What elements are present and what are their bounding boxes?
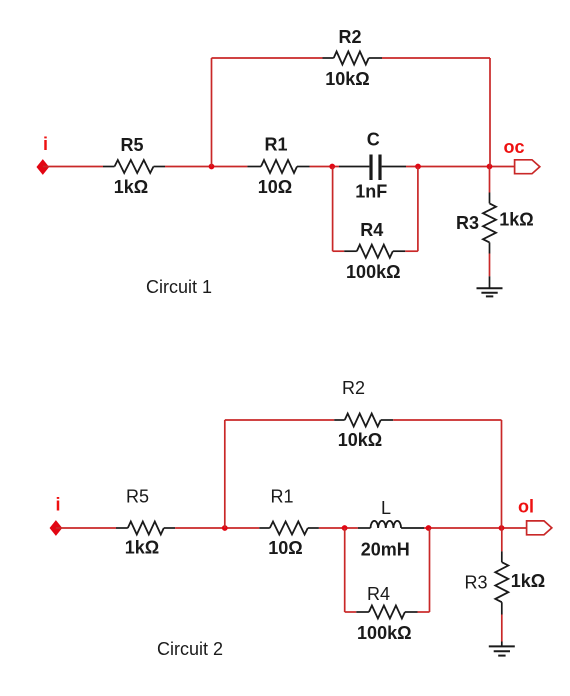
svg-text:100kΩ: 100kΩ [357,623,411,643]
junction node B (Circuit 1) [329,164,335,170]
label R3 [456,213,479,233]
resistor R4 (Circuit 1) [344,245,405,258]
wire L to output node (Circuit 2) [424,527,527,529]
svg-text:1nF: 1nF [355,182,387,202]
svg-text:R4: R4 [367,584,390,604]
value 1k&#937; (R5 Circuit 2) [125,537,159,557]
svg-text:R2: R2 [342,378,365,398]
svg-text:C: C [367,130,380,150]
wire node A up (Circuit 1) [211,58,213,167]
label R3 (Circuit 2) [464,573,487,593]
node i (Circuit 2 input) [55,495,60,515]
value 1nF (C) [355,182,387,202]
wire node A up (Circuit 2) [224,420,226,528]
value 10k&#937; (R2) [325,69,369,89]
label R2 [338,27,361,47]
output port ol [527,521,552,535]
svg-text:1kΩ: 1kΩ [125,537,159,557]
wire R4 to bottom right corner (Circuit 2) [418,611,430,613]
label R5 [120,135,143,155]
wire node B down (Circuit 1) [332,167,334,252]
junction node D (Circuit 2) [426,525,432,531]
node i (Circuit 1 input) [43,134,48,154]
svg-text:10kΩ: 10kΩ [325,69,369,89]
label R4 (Circuit 2) [367,584,390,604]
wire R5 to R1 [165,166,247,168]
resistor R3 (Circuit 1) [483,203,496,253]
wire R3 to ground [489,254,491,289]
svg-text:1kΩ: 1kΩ [511,571,545,591]
junction output node (Circuit 1) [487,164,493,170]
svg-text:R2: R2 [338,27,361,47]
junction node A (Circuit 1) [209,164,215,170]
wire R2 to top right corner [382,57,490,59]
svg-text:R3: R3 [464,573,487,593]
svg-text:L: L [381,498,391,518]
label R5 (Circuit 2) [126,486,149,506]
wire R4 to bottom right corner [405,250,418,252]
value 20mH (L) [361,540,410,560]
wire top right down to output node [489,58,491,167]
wire top left to R2 [212,57,323,59]
wire input to R5 (Circuit 2) [56,527,116,529]
value 1k&#937; (R3 Circuit 2) [511,571,545,591]
svg-text:oc: oc [503,137,524,157]
svg-text:1kΩ: 1kΩ [114,177,148,197]
svg-text:ol: ol [518,497,534,517]
wire R5 to R1 (Circuit 2) [175,527,259,529]
caption Circuit 1 [146,277,212,297]
resistor R5 (Circuit 2) [116,522,175,535]
svg-text:10Ω: 10Ω [258,177,292,197]
wire input to R5 [43,166,103,168]
wire top left to R2 (Circuit 2) [225,419,334,421]
wire top right down to output node (Circuit 2) [501,420,503,528]
svg-text:10kΩ: 10kΩ [338,430,382,450]
svg-text:20mH: 20mH [361,540,410,560]
node oc label [503,137,524,157]
svg-text:R5: R5 [120,135,143,155]
wire node D down (Circuit 1) [417,167,419,252]
ground (Circuit 1) [477,288,503,296]
label C [367,130,380,150]
svg-text:100kΩ: 100kΩ [346,262,400,282]
resistor R4 (Circuit 2) [356,606,417,619]
svg-text:i: i [55,495,60,515]
label R4 [360,220,383,240]
junction node D (Circuit 1) [415,164,421,170]
caption Circuit 2 [157,639,223,659]
label R2 (Circuit 2) [342,378,365,398]
svg-text:R4: R4 [360,220,383,240]
wire node B down (Circuit 2) [344,528,346,612]
value 10&#937; (R1 Circuit 2) [268,538,302,558]
value 100k&#937; (R4) [346,262,400,282]
wire bottom left to R4 (Circuit 2) [345,611,357,613]
label L [381,498,391,518]
input terminal diamond (Circuit 2) [50,521,61,535]
value 1k&#937; (R3) [499,210,533,230]
input terminal diamond (Circuit 1) [37,160,48,174]
wire R2 to top right corner (Circuit 2) [393,419,501,421]
wire R1 to C [310,166,370,168]
wire output node down to R3 [489,167,491,204]
svg-text:R1: R1 [270,486,293,506]
junction node A (Circuit 2) [222,525,228,531]
label R1 (Circuit 2) [270,486,293,506]
junction node B (Circuit 2) [342,525,348,531]
wire R1 to L [319,527,371,529]
resistor R5 (Circuit 1) [103,160,165,173]
resistor R2 (Circuit 1) [323,52,383,65]
svg-text:R1: R1 [264,135,287,155]
value 1k&#937; (R5) [114,177,148,197]
wire output node down to R3 (Circuit 2) [501,528,503,562]
output port oc [515,160,540,174]
svg-text:R3: R3 [456,213,479,233]
svg-text:1kΩ: 1kΩ [499,210,533,230]
value 10&#937; (R1) [258,177,292,197]
wire C to output node [382,166,515,168]
resistor R3 (Circuit 2) [495,562,508,614]
svg-text:i: i [43,134,48,154]
svg-text:Circuit 1: Circuit 1 [146,277,212,297]
value 10k&#937; (R2 Circuit 2) [338,430,382,450]
resistor R2 (Circuit 2) [334,414,393,427]
junction output node (Circuit 2) [499,525,505,531]
wire R3 to ground (Circuit 2) [501,615,503,647]
capacitor C [371,155,380,181]
svg-text:R5: R5 [126,486,149,506]
inductor L [371,521,425,528]
node ol label [518,497,534,517]
label R1 [264,135,287,155]
svg-text:10Ω: 10Ω [268,538,302,558]
value 100k&#937; (R4 Circuit 2) [357,623,411,643]
wire bottom left to R4 [333,250,345,252]
svg-text:Circuit 2: Circuit 2 [157,639,223,659]
resistor R1 (Circuit 1) [247,160,309,173]
wire node D down (Circuit 2) [429,528,431,612]
ground (Circuit 2) [489,646,515,655]
resistor R1 (Circuit 2) [259,522,319,535]
